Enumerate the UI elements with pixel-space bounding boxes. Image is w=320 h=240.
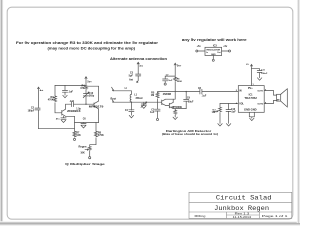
wire: IC1 ground pins (249, 112, 254, 118)
resistor R4 (85, 86, 88, 94)
title block outer box (189, 192, 292, 218)
svg-text:47K: 47K (80, 87, 85, 90)
wire: Q4 collector (172, 99, 174, 102)
alt antenna cap C3a stub (136, 62, 141, 82)
potentiometer Regen (85, 147, 91, 157)
antenna input stub (38, 87, 40, 108)
svg-text:Alternate antenna connection: Alternate antenna connection (110, 57, 167, 61)
svg-text:IC3: IC3 (213, 45, 217, 48)
svg-text:Ant: Ant (40, 89, 44, 92)
wire: IC1 V+ pin (251, 64, 253, 85)
wire: audio out to amp (173, 101, 186, 108)
svg-text:(may need more DC decoupling f: (may need more DC decoupling for the amp… (48, 46, 136, 50)
svg-text:MPS5089: MPS5089 (172, 107, 183, 109)
capacitor C7 stub (163, 76, 176, 83)
resistor R5 (156, 93, 159, 109)
page border frame (7, 7, 293, 219)
svg-text:5v+: 5v+ (177, 64, 182, 68)
alt antenna arrow wire lower (112, 99, 162, 102)
svg-text:.1uF: .1uF (68, 90, 74, 93)
transistor Q3 (162, 99, 166, 105)
svg-text:Out: Out (217, 51, 221, 54)
svg-text:PV+: PV+ (248, 87, 253, 90)
capacitor Q1 emitter bypass (61, 116, 66, 119)
svg-text:10K: 10K (211, 112, 215, 114)
capacitor C2 (35, 108, 40, 129)
svg-text:.1uF: .1uF (202, 96, 207, 98)
wire: Q1 emitter (66, 115, 75, 117)
ground (129, 115, 133, 117)
svg-text:220K: 220K (177, 81, 183, 83)
resistor R7 (73, 131, 76, 138)
svg-text:470K: 470K (48, 99, 54, 102)
capacitor C6 (81, 123, 86, 126)
potentiometer Vol (213, 104, 222, 124)
wire: Q-mult lower rail (75, 122, 99, 124)
wire: antenna bottom rail (39, 128, 75, 130)
svg-text:5uF: 5uF (168, 80, 173, 82)
terminal (212, 59, 214, 61)
title block rev cell split (227, 214, 260, 216)
wire: speaker out1 (264, 91, 276, 96)
node junction dot (85, 104, 86, 105)
svg-text:365p: 365p (89, 95, 95, 97)
wire: bias node (158, 92, 187, 93)
ground (173, 117, 177, 119)
svg-text:5pF: 5pF (129, 74, 134, 77)
power 5v+ arrow (85, 77, 87, 86)
svg-text:Ant: Ant (139, 64, 143, 67)
wire: speaker out2 (264, 100, 276, 103)
capacitor C11 (252, 69, 263, 78)
svg-text:OUT2: OUT2 (257, 104, 264, 106)
svg-text:REGULATOR: REGULATOR (207, 48, 221, 51)
svg-text:.1uF: .1uF (69, 101, 74, 103)
capacitor C8 (200, 89, 238, 94)
terminal (229, 50, 231, 52)
transistor Q1 (62, 109, 66, 116)
svg-text:1.5p: 1.5p (76, 109, 81, 111)
svg-text:VOL: VOL (239, 104, 244, 106)
wire: volume pin (220, 103, 238, 105)
svg-text:100uF: 100uF (261, 73, 268, 75)
svg-text:MPS5179: MPS5179 (89, 106, 105, 108)
ground (218, 124, 222, 126)
transistor Q4 (166, 102, 174, 108)
svg-text:180pF: 180pF (28, 110, 35, 112)
resistor R3 (54, 85, 62, 112)
terminal (196, 50, 198, 52)
wire: regulator gnd (212, 56, 214, 60)
svg-text:2N5088: 2N5088 (163, 94, 172, 96)
capacitor coupling .1uF (72, 102, 87, 107)
terminal (164, 83, 166, 85)
capacitor C4 (129, 110, 134, 116)
svg-text:TDA7052: TDA7052 (244, 97, 257, 100)
svg-text:Lt: Lt (125, 87, 127, 90)
terminal (89, 157, 91, 159)
svg-text:+5v: +5v (197, 45, 202, 48)
svg-text:GND GND: GND GND (244, 109, 257, 112)
wire: Q2 collector branch (86, 86, 99, 103)
ground (61, 120, 65, 122)
wire: regulator output (222, 50, 229, 52)
inductor L1 (130, 91, 131, 110)
trimmer capacitor tank (141, 102, 147, 108)
capacitor C5 (155, 109, 160, 118)
ground (142, 106, 146, 108)
svg-text:any 5v regulator will work her: any 5v regulator will work here (182, 38, 247, 42)
svg-text:10uF: 10uF (188, 101, 194, 103)
wire: emitter drop through rails (74, 116, 76, 131)
ground (257, 78, 261, 80)
svg-text:47u: 47u (56, 117, 60, 120)
speaker SPK (277, 89, 288, 107)
svg-text:350uH: 350uH (136, 98, 143, 100)
svg-text:Circuit Salad: Circuit Salad (216, 195, 272, 202)
capacitor C3 bypass (62, 85, 67, 95)
trimmer capacitor 365p (83, 92, 89, 104)
title block row line 2 (189, 211, 292, 213)
node junction dot (186, 91, 187, 92)
terminal (156, 118, 158, 120)
voltage regulator IC3 box (205, 47, 222, 55)
svg-text:470K: 470K (98, 134, 104, 137)
svg-text:Regen: Regen (79, 144, 87, 148)
svg-text:5v+: 5v+ (87, 79, 92, 83)
svg-text:IN: IN (239, 91, 242, 93)
wire: Q1 collector to coupling cap (66, 104, 72, 109)
capacitor C9 coupling (184, 92, 200, 102)
svg-text:Q Multiplier Stage: Q Multiplier Stage (65, 162, 105, 166)
svg-text:RRing: RRing (195, 214, 207, 218)
svg-text:IC1: IC1 (249, 94, 254, 97)
svg-text:Junkbox Regen: Junkbox Regen (214, 205, 269, 212)
transistor Q2 (86, 103, 99, 109)
terminal (73, 138, 75, 140)
wire: regulator input (198, 50, 205, 52)
svg-text:For 9v operation change R3 to: For 9v operation change R3 to 330K and e… (16, 41, 159, 45)
resistor R6 (174, 77, 177, 99)
title block cell divider 1 (226, 212, 228, 218)
wire: Q3 collector (166, 98, 176, 100)
svg-text:1uF: 1uF (150, 111, 155, 114)
op-amp IC1 box (238, 86, 264, 113)
capacitor C10 (226, 104, 231, 124)
svg-text:+5v: +5v (223, 45, 228, 48)
svg-text:GND: GND (211, 54, 216, 56)
ground (81, 126, 85, 128)
wire: Q2 emitter drop (98, 109, 100, 123)
alt antenna arrow wire upper (112, 87, 132, 91)
svg-text:10K: 10K (76, 134, 81, 137)
node junction dot (131, 102, 132, 103)
resistor R9 emitter (174, 109, 177, 117)
ground (63, 95, 67, 97)
svg-text:11-15-2014: 11-15-2014 (233, 216, 252, 219)
power 5v+ arrow detector (174, 63, 176, 78)
title block row line 1 (189, 201, 292, 203)
ground (250, 118, 254, 120)
svg-text:OUT1: OUT1 (257, 91, 264, 93)
svg-text:Rout: Rout (111, 98, 117, 101)
svg-text:Page 1 of 1: Page 1 of 1 (262, 214, 289, 218)
title block cell divider 2 (258, 212, 260, 218)
svg-text:(Bias of base should be around: (Bias of base should be around 1v) (162, 132, 218, 136)
svg-text:1M: 1M (151, 94, 154, 97)
wire: Q-mult 5v rail (55, 84, 86, 86)
ground (226, 124, 230, 126)
svg-text:.1uF: .1uF (231, 112, 236, 114)
resistor R8 (90, 123, 98, 147)
svg-text:Ant: Ant (129, 79, 133, 82)
svg-text:10K: 10K (80, 151, 85, 154)
